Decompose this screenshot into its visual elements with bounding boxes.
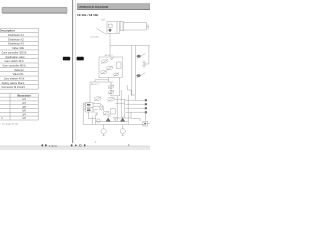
svg-text:Valve 10E: Valve 10E (12, 46, 24, 50)
oil cooler leader (97, 28, 107, 34)
check valve B (137, 74, 141, 77)
svg-text:HI 10L / HI 10L: HI 10L / HI 10L (77, 13, 98, 17)
stacked valves column (110, 82, 112, 96)
svg-text:5/8: 5/8 (22, 110, 26, 113)
check valve A (137, 55, 141, 58)
right end component (143, 121, 148, 126)
svg-text:filter: filter (101, 18, 105, 21)
main block outline (90, 81, 113, 83)
valve row (94, 97, 101, 101)
pilot marks (111, 58, 113, 60)
svg-text:BLOC 2: BLOC 2 (91, 84, 100, 86)
stub below block (108, 78, 110, 80)
svg-text:Cam controller 80 lb: Cam controller 80 lb (2, 64, 26, 68)
distributor spool (86, 103, 93, 112)
svg-text:Description: Description (0, 29, 15, 33)
svg-text:2/4: 2/4 (22, 102, 26, 105)
manifold staircase (127, 85, 135, 100)
restrictor (143, 60, 145, 68)
illustration table (0, 93, 38, 120)
valve V3 (101, 71, 107, 74)
valve V4 (113, 73, 118, 76)
svg-text:3/8: 3/8 (22, 106, 26, 109)
tank cylinder (120, 21, 123, 30)
small rect component (117, 62, 121, 68)
right tab (77, 57, 84, 61)
wire stub from filter (109, 33, 111, 45)
svg-text:3/4: 3/4 (22, 113, 26, 116)
left page header bar (2, 7, 67, 13)
left footer icons (42, 144, 57, 148)
svg-text:4 (1/1): 4 (1/1) (49, 144, 57, 148)
pump 2 (122, 125, 124, 129)
left tab (63, 57, 70, 61)
svg-text:Illustration: Illustration (17, 93, 31, 97)
right footer icons (71, 144, 86, 146)
bottom toolbar strip (0, 146, 150, 150)
interconnect wires (116, 96, 118, 118)
wire to valve block (109, 46, 111, 58)
valve V1 (101, 60, 107, 63)
svg-text:oil cooler: oil cooler (90, 35, 99, 38)
parts table (0, 28, 38, 89)
svg-text:Cam switch 30 A: Cam switch 30 A (4, 59, 24, 63)
svg-text:Valve DG: Valve DG (13, 72, 24, 76)
bottom row components (97, 119, 101, 123)
svg-text:1/2: 1/2 (22, 117, 26, 120)
svg-text:* see page 34-102: * see page 34-102 (0, 124, 19, 126)
filter box (107, 22, 120, 33)
svg-text:Distributor K1: Distributor K1 (8, 33, 24, 37)
page divider (75, 0, 77, 140)
svg-text:BLOC 1: BLOC 1 (105, 55, 114, 57)
extra right wires (131, 117, 140, 119)
svg-text:Application valve: Application valve (5, 55, 25, 59)
filter gauge (109, 29, 112, 32)
connectors from spool (93, 102, 100, 104)
svg-text:Distributor K3: Distributor K3 (8, 42, 24, 46)
svg-text:HYDRAULIC DIAGRAM: HYDRAULIC DIAGRAM (79, 5, 109, 9)
right vertical pipes (131, 46, 133, 97)
main rail (110, 45, 150, 47)
svg-text:Cam controller 300 lb: Cam controller 300 lb (2, 50, 27, 54)
valve block (dashed) (99, 57, 123, 78)
svg-text:Safety valves 3bars: Safety valves 3bars (2, 81, 25, 85)
port connectors (145, 99, 147, 101)
svg-text:Cam marker 40 lb: Cam marker 40 lb (4, 77, 25, 81)
right page header bar (77, 4, 150, 10)
bottom manifold (83, 124, 144, 126)
mid valves (100, 105, 103, 110)
svg-text:Distributor K2: Distributor K2 (8, 37, 24, 41)
svg-text:Connector M 10x3/4: Connector M 10x3/4 (1, 85, 25, 89)
svg-text:Selector: Selector (14, 68, 24, 72)
svg-text:1/4: 1/4 (22, 98, 26, 101)
down pipes (95, 115, 97, 124)
pump 1 (103, 125, 105, 129)
valve V2 (107, 66, 113, 69)
parts table text (0, 29, 27, 90)
